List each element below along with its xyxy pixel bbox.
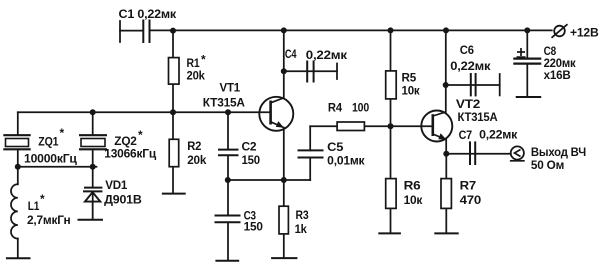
svg-text:х16В: х16В <box>544 68 571 82</box>
svg-text:10к: 10к <box>402 84 421 98</box>
svg-text:10000кГц: 10000кГц <box>24 152 78 166</box>
svg-text:0,01мк: 0,01мк <box>327 154 365 168</box>
svg-text:20k: 20k <box>187 69 206 83</box>
svg-text:КТ315А: КТ315А <box>203 96 246 110</box>
svg-text:150: 150 <box>242 153 261 167</box>
svg-text:*: * <box>60 126 65 140</box>
svg-text:C1 0,22мк: C1 0,22мк <box>119 7 178 21</box>
svg-text:0,22мк: 0,22мк <box>450 59 491 73</box>
svg-text:13066кГц: 13066кГц <box>104 147 157 161</box>
svg-text:ZQ1: ZQ1 <box>38 135 58 149</box>
svg-text:R6: R6 <box>404 179 421 193</box>
svg-text:+12В: +12В <box>570 25 599 39</box>
svg-text:C2: C2 <box>242 140 257 154</box>
svg-text:C7: C7 <box>459 128 473 142</box>
svg-text:10к: 10к <box>404 193 424 207</box>
svg-text:Д901В: Д901В <box>104 192 142 206</box>
svg-text:C4: C4 <box>285 47 297 61</box>
svg-text:20k: 20k <box>187 153 207 167</box>
svg-text:470: 470 <box>460 193 482 207</box>
svg-text:*: * <box>40 192 45 206</box>
svg-text:Выход ВЧ: Выход ВЧ <box>531 145 586 159</box>
svg-text:0,22мк: 0,22мк <box>306 48 348 62</box>
svg-text:2,7мкГн: 2,7мкГн <box>27 213 71 227</box>
svg-text:50 Ом: 50 Ом <box>531 158 565 172</box>
svg-text:0,22мк: 0,22мк <box>479 128 518 142</box>
svg-text:R4: R4 <box>328 101 342 115</box>
svg-text:L1: L1 <box>28 199 40 213</box>
svg-text:VT1: VT1 <box>220 81 241 95</box>
svg-text:1k: 1k <box>295 222 308 236</box>
svg-text:VT2: VT2 <box>456 97 481 111</box>
svg-text:R5: R5 <box>402 71 417 85</box>
svg-text:R2: R2 <box>187 139 201 153</box>
svg-text:R3: R3 <box>296 208 309 222</box>
svg-text:R7: R7 <box>460 179 477 193</box>
svg-text:*: * <box>138 128 143 142</box>
svg-text:C6: C6 <box>460 43 474 57</box>
svg-text:C5: C5 <box>327 140 344 154</box>
svg-text:100: 100 <box>352 101 369 115</box>
svg-text:150: 150 <box>244 220 264 234</box>
svg-text:VD1: VD1 <box>105 178 128 192</box>
svg-text:КТ315А: КТ315А <box>458 110 498 124</box>
svg-text:*: * <box>201 53 206 67</box>
